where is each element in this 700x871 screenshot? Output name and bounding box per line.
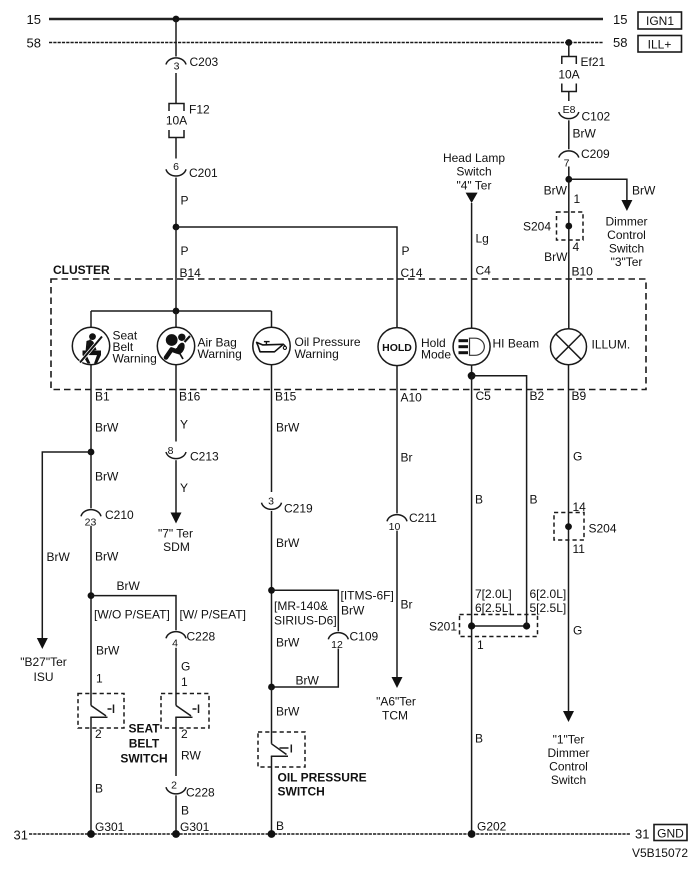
- lamp Air Bag Warning: [157, 311, 241, 390]
- fuse F12 10A: [169, 104, 184, 112]
- svg-text:SWITCH: SWITCH: [278, 785, 325, 799]
- svg-text:[W/O P/SEAT]: [W/O P/SEAT]: [94, 608, 170, 622]
- svg-text:C102: C102: [582, 110, 611, 124]
- wire: [568, 365, 570, 390]
- C5 ground path x=471.6: [429, 390, 538, 838]
- svg-text:BrW: BrW: [632, 184, 656, 198]
- wire B: [271, 756, 273, 834]
- svg-text:ISU: ISU: [33, 670, 53, 684]
- svg-text:6[2.5L]: 6[2.5L]: [475, 601, 512, 615]
- svg-text:Control: Control: [607, 228, 646, 242]
- svg-text:B: B: [95, 782, 103, 796]
- svg-text:B16: B16: [179, 390, 201, 404]
- wire: [90, 311, 92, 327]
- wire BrW: [271, 687, 273, 744]
- svg-text:BrW: BrW: [341, 604, 365, 618]
- svg-text:B10: B10: [572, 265, 594, 279]
- svg-text:Y: Y: [180, 418, 188, 432]
- svg-text:C4: C4: [476, 264, 492, 278]
- svg-text:31: 31: [635, 827, 649, 842]
- svg-text:S204: S204: [523, 220, 551, 234]
- wire to C5: [471, 376, 473, 390]
- wire branch to HOLD feed: [176, 227, 397, 328]
- wire B: [90, 717, 92, 834]
- svg-text:C201: C201: [189, 166, 218, 180]
- bus rail 15 IGN1: [27, 12, 682, 29]
- svg-text:B2: B2: [530, 389, 545, 403]
- svg-text:G202: G202: [477, 820, 507, 834]
- wire Lg: [471, 203, 473, 328]
- lamp HI Beam: [453, 328, 539, 389]
- svg-text:P: P: [181, 194, 189, 208]
- B2 path x=526.6: [527, 390, 567, 627]
- B16 SDM path x=176: [158, 390, 219, 555]
- svg-text:G: G: [573, 624, 582, 638]
- wire BrW: [90, 390, 92, 509]
- wire rail 58: [49, 42, 603, 44]
- seat belt switch 1: [78, 694, 124, 729]
- svg-text:C213: C213: [190, 450, 219, 464]
- net box GND: [654, 825, 687, 841]
- wire branch BrW to dimmer control switch: [569, 179, 627, 201]
- svg-text:P: P: [402, 244, 410, 258]
- node splice rejoin: [268, 684, 275, 691]
- wire P down to B14: [175, 227, 177, 311]
- wire branch: [91, 596, 176, 631]
- wire bus: [91, 310, 272, 312]
- wire B: [175, 795, 177, 834]
- svg-text:10A: 10A: [166, 114, 187, 128]
- node junction on rail 58: [565, 39, 572, 46]
- svg-text:"A6"Ter: "A6"Ter: [376, 695, 416, 709]
- svg-text:"3"Ter: "3"Ter: [611, 255, 643, 269]
- bus rail 58 ILL+: [27, 35, 682, 52]
- wire BrW: [90, 526, 92, 706]
- svg-text:BrW: BrW: [544, 250, 568, 264]
- svg-text:C203: C203: [190, 55, 219, 69]
- svg-text:S201: S201: [429, 620, 457, 634]
- connector C210 pin 23: [81, 510, 101, 517]
- node junction on rail 15: [173, 16, 180, 23]
- wire: [271, 311, 273, 327]
- svg-text:A10: A10: [401, 391, 423, 405]
- svg-text:BrW: BrW: [276, 636, 300, 650]
- svg-text:7[2.0L]: 7[2.0L]: [475, 587, 512, 601]
- svg-text:BrW: BrW: [95, 470, 119, 484]
- wire BrW: [568, 120, 570, 149]
- wire: [90, 365, 92, 390]
- svg-text:B: B: [475, 493, 483, 507]
- air bag icon: [166, 334, 190, 359]
- svg-text:3: 3: [268, 496, 274, 508]
- svg-text:Br: Br: [401, 451, 413, 465]
- svg-text:Lg: Lg: [476, 232, 489, 246]
- svg-text:BrW: BrW: [296, 674, 320, 688]
- splice S204: [557, 212, 584, 240]
- wire: [568, 92, 570, 102]
- wire Y: [175, 390, 177, 442]
- svg-text:"4" Ter: "4" Ter: [457, 179, 492, 193]
- wire P: [175, 178, 177, 227]
- svg-text:11: 11: [573, 542, 586, 556]
- wire BrW: [271, 511, 273, 687]
- svg-text:ILLUM.: ILLUM.: [592, 338, 631, 352]
- svg-text:3: 3: [174, 61, 180, 73]
- main IGN1 feed path x=176: [166, 16, 423, 328]
- svg-text:S204: S204: [589, 522, 617, 536]
- lamp cross icon: [556, 334, 581, 359]
- arrow to Dimmer Control Switch 3 Ter: [621, 200, 632, 211]
- fuse Ef21 10A: [562, 57, 577, 65]
- svg-text:B1: B1: [95, 390, 110, 404]
- svg-text:Y: Y: [180, 481, 188, 495]
- svg-text:CLUSTER: CLUSTER: [53, 263, 110, 277]
- svg-text:"7" Ter: "7" Ter: [158, 527, 193, 541]
- A10 hold mode path x=397: [376, 390, 437, 723]
- svg-text:C109: C109: [350, 630, 379, 644]
- svg-text:C211: C211: [409, 511, 437, 525]
- wire: [175, 19, 177, 57]
- svg-text:2: 2: [95, 727, 102, 741]
- svg-text:1: 1: [181, 675, 188, 689]
- svg-text:ILL+: ILL+: [648, 38, 672, 52]
- wire B: [526, 390, 528, 627]
- svg-text:C210: C210: [105, 508, 134, 522]
- svg-text:C209: C209: [581, 147, 610, 161]
- wire: [175, 311, 177, 327]
- node splice to C14 branch: [173, 224, 180, 231]
- cluster internal bus: [91, 308, 272, 315]
- svg-text:F12: F12: [189, 103, 210, 117]
- wire Br: [396, 531, 398, 678]
- seat belt icon: [80, 333, 102, 363]
- svg-text:IGN1: IGN1: [646, 14, 674, 28]
- svg-text:10: 10: [389, 521, 401, 533]
- svg-text:Warning: Warning: [198, 347, 242, 361]
- connector C228 pin 4: [166, 632, 186, 639]
- wire branch to ISU: [42, 452, 91, 639]
- svg-text:[ITMS-6F]: [ITMS-6F]: [341, 589, 394, 603]
- svg-text:Switch: Switch: [456, 165, 491, 179]
- svg-text:12: 12: [331, 639, 343, 651]
- svg-text:C228: C228: [186, 786, 215, 800]
- svg-text:TCM: TCM: [382, 709, 408, 723]
- connector C209 pin 7: [559, 151, 579, 158]
- svg-text:SIRIUS-D6]: SIRIUS-D6]: [274, 614, 337, 628]
- connector C109 pin 12: [328, 633, 348, 640]
- svg-text:10A: 10A: [558, 68, 579, 82]
- svg-text:B14: B14: [180, 266, 202, 280]
- svg-text:B15: B15: [275, 390, 297, 404]
- B9 dimmer path x=568.5: [548, 390, 617, 788]
- lamp ILLUM: [551, 329, 631, 390]
- net box IGN1: [638, 12, 682, 29]
- svg-text:2: 2: [171, 780, 177, 792]
- svg-text:1: 1: [477, 638, 484, 652]
- W/ P/SEAT branch x=176: [91, 596, 246, 838]
- svg-text:1: 1: [96, 672, 103, 686]
- svg-text:BrW: BrW: [47, 550, 71, 564]
- head lamp switch feed x=471.6: [443, 151, 505, 328]
- svg-text:BrW: BrW: [96, 644, 120, 658]
- svg-text:Mode: Mode: [421, 348, 451, 362]
- node junction to B2: [468, 372, 476, 380]
- svg-text:BrW: BrW: [117, 579, 141, 593]
- svg-text:BrW: BrW: [95, 421, 119, 435]
- svg-text:G301: G301: [95, 820, 125, 834]
- svg-text:HI Beam: HI Beam: [493, 337, 540, 351]
- node splice to ISU branch: [88, 449, 95, 456]
- wire B: [471, 390, 473, 835]
- wire RW: [175, 717, 177, 776]
- wire branch return: [272, 649, 339, 688]
- wire branch ITMS-6F: [272, 590, 339, 631]
- svg-text:Head Lamp: Head Lamp: [443, 151, 505, 165]
- ILL+ feed path x=568.8: [523, 39, 656, 328]
- splice S204: [554, 513, 584, 541]
- svg-text:5[2.5L]: 5[2.5L]: [530, 601, 567, 615]
- svg-text:B: B: [276, 819, 284, 833]
- arrow to A6 Ter TCM: [392, 677, 403, 688]
- wire branch to B2: [472, 376, 527, 390]
- svg-text:OIL PRESSURE: OIL PRESSURE: [278, 771, 367, 785]
- svg-text:C228: C228: [187, 630, 216, 644]
- wire: [396, 366, 398, 390]
- connector C203 pin 3: [166, 58, 186, 65]
- wire: [175, 73, 177, 104]
- node splice to W/ P/SEAT branch: [88, 592, 95, 599]
- svg-text:P: P: [181, 244, 189, 258]
- node splice after C209: [565, 176, 572, 183]
- bus rail 31 GND: [14, 825, 689, 861]
- svg-text:SEAT: SEAT: [128, 722, 160, 736]
- svg-text:BrW: BrW: [95, 550, 119, 564]
- wire: [271, 365, 273, 390]
- svg-text:4: 4: [573, 240, 580, 254]
- svg-text:BrW: BrW: [573, 127, 597, 141]
- svg-text:58: 58: [27, 36, 41, 51]
- svg-text:Switch: Switch: [551, 773, 586, 787]
- arrow to 7 Ter SDM: [171, 513, 182, 524]
- wire Y: [175, 460, 177, 513]
- svg-text:Br: Br: [401, 598, 413, 612]
- svg-text:V5B15072: V5B15072: [632, 846, 688, 860]
- svg-text:G: G: [181, 660, 190, 674]
- svg-text:G: G: [573, 450, 582, 464]
- svg-text:BrW: BrW: [276, 536, 300, 550]
- svg-text:Dimmer: Dimmer: [548, 746, 590, 760]
- wire G: [175, 648, 177, 706]
- svg-text:BrW: BrW: [276, 705, 300, 719]
- svg-text:4: 4: [172, 638, 178, 650]
- wire: [175, 365, 177, 390]
- svg-text:B: B: [530, 493, 538, 507]
- svg-text:SDM: SDM: [163, 540, 190, 554]
- svg-text:SWITCH: SWITCH: [120, 752, 167, 766]
- svg-text:Switch: Switch: [609, 242, 644, 256]
- svg-text:B9: B9: [572, 389, 587, 403]
- B1 seat belt path x=91: [20, 390, 170, 838]
- svg-text:Warning: Warning: [295, 347, 339, 361]
- arrow to 1 Ter Dimmer Control Switch: [563, 711, 574, 722]
- lamp HOLD Hold Mode: [378, 328, 451, 390]
- connector C211 pin 10: [387, 515, 407, 522]
- svg-text:BrW: BrW: [276, 421, 300, 435]
- net box ILL+: [638, 36, 682, 53]
- svg-text:Warning: Warning: [113, 352, 157, 366]
- svg-text:15: 15: [27, 12, 41, 27]
- node splice to C109 branch: [268, 587, 275, 594]
- svg-text:15: 15: [613, 12, 627, 27]
- wire Br: [396, 390, 398, 514]
- svg-text:58: 58: [613, 35, 627, 50]
- svg-text:1: 1: [574, 192, 581, 206]
- wire splice bar: [472, 625, 527, 627]
- svg-text:GND: GND: [657, 827, 684, 841]
- svg-text:BrW: BrW: [544, 184, 568, 198]
- headlamp icon: [459, 338, 485, 355]
- seat belt switch 2: [161, 694, 209, 729]
- wire: [568, 167, 570, 180]
- B15 oil pressure path x=271.5: [258, 390, 394, 838]
- svg-text:HOLD: HOLD: [382, 342, 412, 354]
- wire G: [568, 390, 570, 712]
- svg-text:2: 2: [181, 727, 188, 741]
- svg-text:C219: C219: [284, 502, 313, 516]
- svg-text:BELT: BELT: [129, 737, 160, 751]
- svg-text:G301: G301: [180, 820, 210, 834]
- svg-text:C14: C14: [401, 266, 423, 280]
- wire: [568, 43, 570, 57]
- svg-text:[MR-140&: [MR-140&: [274, 599, 328, 613]
- svg-text:B: B: [475, 732, 483, 746]
- wire BrW: [271, 390, 273, 493]
- svg-text:"1"Ter: "1"Ter: [553, 733, 585, 747]
- svg-text:Control: Control: [549, 760, 588, 774]
- node junction B14 bus: [173, 308, 180, 315]
- wire rail 31: [29, 833, 630, 835]
- splice S201: [460, 615, 538, 637]
- svg-text:RW: RW: [181, 749, 201, 763]
- svg-text:"B27"Ter: "B27"Ter: [20, 655, 67, 669]
- oil pressure switch: [258, 732, 305, 767]
- svg-text:C5: C5: [476, 389, 492, 403]
- arrow to B27 Ter ISU: [37, 638, 48, 649]
- svg-text:E8: E8: [563, 104, 576, 116]
- node ground junction: [268, 830, 276, 838]
- svg-text:6: 6: [173, 161, 179, 173]
- svg-text:31: 31: [14, 828, 28, 843]
- wire: [175, 138, 177, 159]
- svg-text:[W/ P/SEAT]: [W/ P/SEAT]: [180, 608, 246, 622]
- wire: [471, 365, 473, 376]
- lamp Seat Belt Warning: [72, 311, 156, 390]
- svg-text:Ef21: Ef21: [581, 55, 606, 69]
- wire rail 15: [49, 18, 603, 20]
- oil can icon: [257, 342, 287, 352]
- cluster pin labels: [95, 389, 587, 405]
- lamp Oil Pressure Warning: [253, 311, 361, 390]
- svg-text:6[2.0L]: 6[2.0L]: [530, 587, 567, 601]
- svg-text:B: B: [181, 804, 189, 818]
- CLUSTER module box: [51, 263, 646, 390]
- svg-text:Dimmer: Dimmer: [606, 215, 648, 229]
